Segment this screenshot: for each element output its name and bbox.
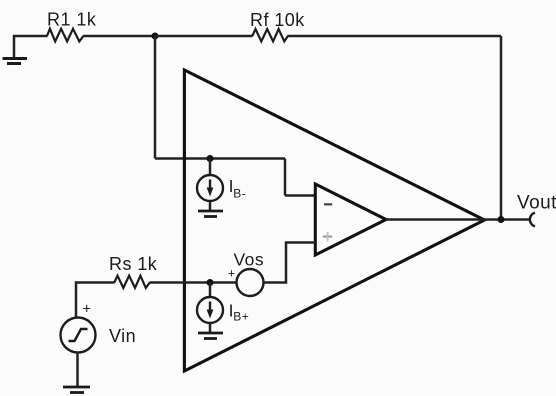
current source IB+	[197, 297, 223, 323]
op-amp U1 (ideal inner op-amp)	[315, 184, 386, 255]
wire: ground to R1 left	[14, 36, 48, 57]
wire: op-amp output to Vout terminal	[386, 218, 529, 221]
wire: into op-amp minus input	[285, 194, 316, 197]
ground (top-left, at R1)	[3, 59, 28, 64]
wire: node A down to inverting rail	[154, 36, 157, 159]
wire: inverting dogleg down	[284, 159, 287, 196]
wire: Rf to top-right corner	[288, 35, 502, 38]
ground (under Vin)	[63, 387, 90, 393]
op-amp A1 (large ideal amplifier triangle)	[184, 70, 484, 371]
Vout terminal	[530, 213, 535, 227]
svg-text:+: +	[228, 267, 236, 281]
wire: node C to IB+ top	[209, 283, 212, 298]
svg-text:Rf 10k: Rf 10k	[250, 10, 305, 30]
wire: Vin to ground	[76, 353, 79, 387]
node A junction (R1/Rf/inverting branch)	[152, 33, 159, 40]
svg-text:+: +	[83, 302, 92, 318]
U1 plus pin label	[323, 232, 332, 242]
wire: Rs to Vos	[150, 281, 237, 284]
svg-text:B+: B+	[233, 310, 249, 324]
svg-text:Vout: Vout	[517, 193, 556, 214]
Vin waveform symbol	[69, 329, 88, 341]
current source IB-	[197, 175, 223, 201]
ground (under IB-)	[198, 211, 223, 217]
node B junction (IB- tap)	[207, 155, 214, 162]
resistor Rf	[252, 29, 288, 41]
svg-text:R1 1k: R1 1k	[47, 10, 97, 30]
source Vin	[61, 318, 96, 353]
U1 minus pin label	[324, 203, 332, 205]
node C junction (IB+ tap)	[207, 279, 214, 286]
wire: R1 to node A	[83, 35, 155, 38]
resistor Rs	[114, 276, 150, 288]
node Vout junction	[498, 216, 505, 223]
wire: feedback vertical down to output node	[500, 36, 503, 220]
wire: IB+ to ground	[209, 323, 212, 333]
svg-text:Vos: Vos	[234, 250, 265, 270]
wire: node B to IB- top	[209, 159, 212, 177]
svg-text:B-: B-	[233, 187, 246, 201]
resistor R1	[47, 29, 83, 42]
svg-text:Rs 1k: Rs 1k	[109, 254, 158, 274]
wire: inverting rail horizontal	[155, 157, 285, 160]
svg-text:Vin: Vin	[109, 326, 136, 346]
ground (under IB+)	[198, 333, 223, 339]
wire: node A to Rf left	[155, 35, 253, 38]
wire: Vos to plus-input dogleg	[264, 243, 316, 283]
wire: source loop Vin up to Rs	[76, 283, 115, 318]
wire: IB- to ground	[209, 201, 212, 210]
voltage source Vos	[237, 269, 264, 296]
